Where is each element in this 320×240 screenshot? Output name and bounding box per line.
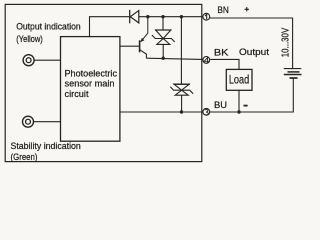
svg-text:10...30V: 10...30V (281, 28, 292, 58)
wire indicator to box (34, 59, 60, 61)
LED indicator output (yellow) (23, 55, 34, 66)
junction output line / zener1 (162, 57, 165, 60)
svg-text:circuit: circuit (65, 89, 89, 99)
wire terminal 4 to load (210, 59, 239, 69)
wire terminal 1 to battery (210, 18, 293, 69)
svg-text:BK: BK (214, 47, 230, 57)
load box (226, 69, 252, 90)
base wire (120, 45, 139, 47)
emitter arrow (PNP) (141, 38, 145, 42)
svg-text:Photoelectric: Photoelectric (65, 69, 118, 79)
wire load to minus line (238, 90, 240, 112)
minus wire box to terminal 3 (120, 111, 203, 113)
junction rail/zener2 (180, 15, 183, 18)
battery 10...30V (284, 69, 302, 78)
junction rail/zener1 (161, 15, 164, 18)
svg-text:BU: BU (214, 100, 227, 110)
wire box top to supply rail (90, 17, 130, 37)
collector lead (140, 50, 146, 58)
sensor housing frame (5, 4, 202, 161)
terminal 3 (203, 108, 210, 115)
wire indicator to box (34, 121, 61, 123)
wire battery to minus line (210, 78, 294, 112)
svg-text:Output: Output (239, 47, 269, 57)
svg-text:(Yellow): (Yellow) (16, 34, 43, 44)
output wire collector to terminal 4 (146, 58, 202, 59)
emitter lead (141, 17, 148, 42)
zener Z1 bidirectional suppressor (rail to output) (152, 17, 175, 59)
base bar (139, 40, 141, 52)
junction minus line / zener2 (180, 110, 183, 113)
diode D1 reverse polarity protection (130, 10, 139, 23)
junction rail/emitter (146, 15, 149, 18)
svg-text:Load: Load (229, 73, 249, 87)
LED indicator stability (green) (23, 116, 34, 127)
transistor Q1 PNP output (120, 17, 148, 59)
svg-text:sensor main: sensor main (65, 79, 115, 89)
supply rail wire diode to terminal 1 (139, 16, 203, 18)
svg-text:Output indication: Output indication (16, 22, 81, 32)
svg-text:Stability indication: Stability indication (11, 141, 81, 151)
zener Z2 bidirectional suppressor (rail to minus) (170, 17, 193, 112)
label plus (245, 7, 249, 11)
junction minus line / load (237, 110, 240, 113)
terminal 1 (203, 13, 210, 20)
label minus (244, 105, 248, 107)
photoelectric sensor main circuit box (61, 37, 120, 142)
terminal 4 (203, 57, 210, 64)
svg-text:BN: BN (217, 5, 229, 15)
svg-text:(Green): (Green) (11, 152, 38, 162)
